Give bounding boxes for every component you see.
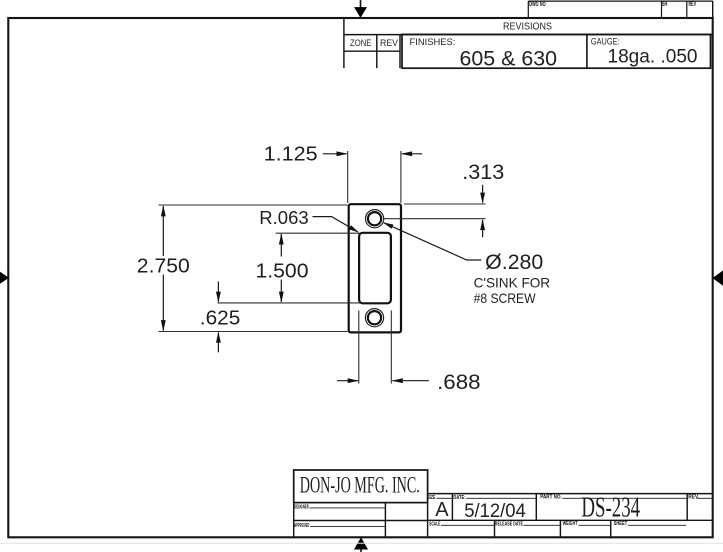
svg-text:SH: SH bbox=[662, 1, 668, 8]
svg-text:2.750: 2.750 bbox=[137, 254, 190, 277]
svg-text:REVISIONS: REVISIONS bbox=[503, 22, 552, 33]
svg-text:WEIGHT: WEIGHT bbox=[563, 521, 578, 527]
svg-text:#8 SCREW: #8 SCREW bbox=[474, 290, 537, 306]
svg-text:ZONE: ZONE bbox=[350, 37, 371, 48]
svg-text:PART NO.: PART NO. bbox=[540, 494, 562, 500]
svg-text:FINISHES:: FINISHES: bbox=[410, 37, 456, 47]
svg-text:.688: .688 bbox=[437, 370, 481, 394]
svg-text:.625: .625 bbox=[200, 306, 241, 329]
svg-text:REV: REV bbox=[688, 494, 698, 500]
svg-text:.313: .313 bbox=[462, 160, 504, 184]
svg-text:A: A bbox=[435, 499, 449, 521]
svg-text:Ø.280: Ø.280 bbox=[485, 251, 543, 274]
svg-text:APPROVED: APPROVED bbox=[294, 523, 309, 529]
svg-text:SCALE: SCALE bbox=[429, 521, 440, 527]
svg-text:DESIGNER: DESIGNER bbox=[294, 504, 309, 510]
svg-text:1.125: 1.125 bbox=[264, 142, 318, 165]
svg-text:5/12/04: 5/12/04 bbox=[464, 500, 526, 522]
svg-text:REV: REV bbox=[689, 1, 697, 8]
svg-text:1.500: 1.500 bbox=[256, 259, 309, 282]
svg-text:REV: REV bbox=[380, 37, 399, 48]
svg-text:605 & 630: 605 & 630 bbox=[460, 46, 558, 70]
svg-text:C'SINK FOR: C'SINK FOR bbox=[474, 275, 550, 291]
svg-text:DON-JO MFG. INC.: DON-JO MFG. INC. bbox=[300, 473, 420, 498]
svg-text:R.063: R.063 bbox=[259, 207, 308, 228]
svg-text:SIZE: SIZE bbox=[428, 495, 436, 501]
svg-text:DWG NO: DWG NO bbox=[529, 1, 546, 8]
svg-text:RELEASE DATE: RELEASE DATE bbox=[495, 521, 523, 527]
svg-text:18ga. .050: 18ga. .050 bbox=[608, 45, 698, 67]
svg-text:DS-234: DS-234 bbox=[581, 492, 640, 523]
